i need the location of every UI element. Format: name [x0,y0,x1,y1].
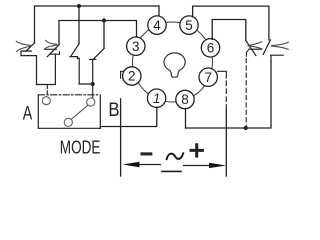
wire contact 4 drop from second rail [103,21,105,49]
wire joining contact 1 and contact 2 bottoms [37,84,56,86]
pin 5 [180,16,198,34]
pin 5 wire to top-right rail [193,6,269,40]
svg-text:7: 7 [204,70,212,85]
svg-text:5: 5 [185,18,193,33]
svg-text:3: 3 [132,39,140,54]
supply polarity arrow left [122,162,160,167]
supply polarity arrow right [184,163,227,168]
svg-text:8: 8 [181,92,189,107]
pin 3 [127,37,145,55]
label AC underline [162,170,181,172]
wire contact 6 bottom to bottom-right rail [186,62,272,128]
wire second left rail from contact 2 to pin 3 [59,21,137,45]
contact 3 (start input contact) [70,44,79,84]
pin 2 [123,67,141,85]
wire supply line left (B) [120,99,122,176]
wire supply line right [225,81,227,110]
label minus [142,152,151,155]
node junction at contact 5 drop on bottom-right rail [244,126,248,130]
socket keyhole [164,53,185,77]
MODE switch terminal left [42,97,50,105]
svg-text:2: 2 [128,69,136,84]
svg-text:A: A [23,104,33,125]
svg-text:4: 4 [153,18,161,33]
MODE selector box [38,95,100,129]
label AC tilde [167,153,184,159]
pin 1 [147,89,165,107]
pin 6 [201,39,219,57]
contact 5 (right output contact, with arrow) [246,40,262,56]
wire dashed drop from contact 5 to bottom rail [245,59,247,127]
contact 6 (right output contact, with arrow) [263,40,288,62]
pin 2 terminal tab [121,71,124,78]
contact 4 (start input contact) [90,48,105,84]
wire joining contact 3 and contact 4 bottoms [79,83,93,85]
node junction on second left rail (contact 4 tap) [102,18,106,22]
wire dashed drop to MODE box left terminal [46,86,48,96]
contact 1 (left output contact, with arrow) [16,41,36,84]
svg-text:B: B [108,100,119,121]
pin 6 wire to second right rail [212,20,246,41]
MODE switch terminal right [87,98,95,106]
pin 4 [148,16,166,34]
pin 1 wire down and left to supply line [100,107,157,128]
wire contact 3 drop from top rail [78,6,80,44]
MODE switch lever [71,105,87,119]
contact 2 (left output contact, with arrow) [45,40,60,84]
pin 8 [176,90,194,108]
socket outline ring [133,22,213,102]
pin 7 terminal tab [218,71,227,78]
wire top-left rail from contact 1 to pin 4 [35,6,160,43]
label plus [191,145,202,156]
MODE switch pivot [64,118,72,126]
svg-text:MODE: MODE [60,138,101,158]
wire drop to MODE box right terminal [92,84,94,98]
svg-text:1: 1 [153,91,161,106]
node junction on top-left rail (contact 3 tap) [77,4,81,8]
node junction at contact 4 bottom [91,82,95,86]
pin 8 wire down to bottom-right rail [185,108,187,128]
pin 7 [199,68,217,86]
svg-text:6: 6 [207,41,215,56]
